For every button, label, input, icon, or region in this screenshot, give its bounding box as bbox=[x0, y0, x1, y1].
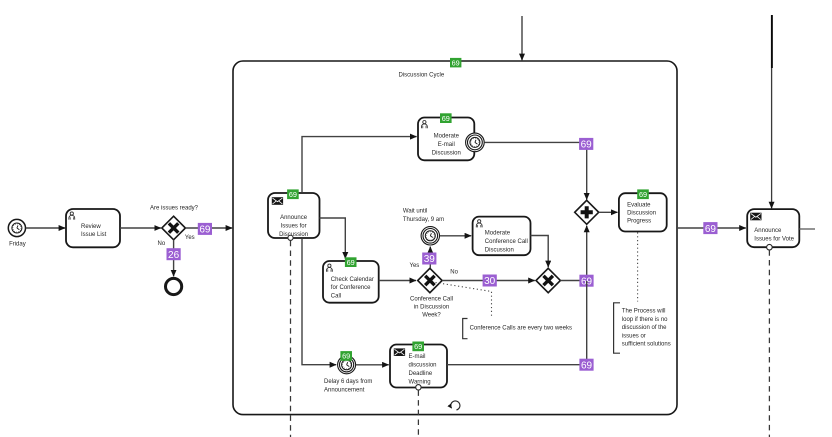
svg-text:sufficient solutions: sufficient solutions bbox=[622, 342, 671, 348]
svg-text:Announce: Announce bbox=[280, 215, 308, 221]
svg-text:Progress: Progress bbox=[627, 219, 651, 225]
svg-text:Deadline: Deadline bbox=[409, 371, 433, 377]
svg-text:for Conference: for Conference bbox=[331, 285, 371, 291]
parallel gateway bbox=[575, 200, 599, 224]
svg-text:Call: Call bbox=[331, 293, 341, 299]
badge green 69 on Check Calendar bbox=[345, 257, 357, 267]
wire out of Announce Issues for Vote to right bbox=[799, 228, 815, 230]
svg-text:69: 69 bbox=[581, 140, 593, 151]
svg-text:69: 69 bbox=[639, 190, 647, 199]
wire Announce to Moderate E-mail Discussion bbox=[302, 137, 417, 193]
message flow dashed from E-mail warning down bbox=[417, 390, 419, 437]
wire Moderate Conference Call to merge gateway bbox=[531, 236, 549, 268]
svg-text:No: No bbox=[158, 241, 166, 247]
wire X2 No to merge gateway X3 bbox=[442, 280, 535, 282]
svg-text:Discussion: Discussion bbox=[485, 248, 514, 254]
svg-text:discussion of the: discussion of the bbox=[622, 325, 667, 331]
wire Check Calendar to gateway X2 bbox=[379, 280, 416, 282]
message flow dashed from Vote down bbox=[768, 250, 770, 437]
svg-text:30: 30 bbox=[484, 276, 496, 287]
svg-text:Conference Calls are every two: Conference Calls are every two weeks bbox=[470, 326, 572, 332]
badge green 69 on Evaluate bbox=[637, 189, 649, 199]
wire Announce to Delay timer bbox=[302, 238, 336, 364]
wire subprocess exit to Announce Issues for Vote bbox=[677, 227, 746, 229]
wire Wait timer to Moderate Conference Call bbox=[440, 235, 472, 237]
wire parallel gateway to Evaluate bbox=[599, 211, 618, 213]
svg-text:Wait until: Wait until bbox=[403, 209, 427, 215]
badge green 69 on subprocess top edge bbox=[450, 58, 461, 68]
svg-text:69: 69 bbox=[705, 224, 717, 235]
annotation The Process will loop bbox=[614, 303, 671, 353]
svg-text:Friday: Friday bbox=[9, 241, 26, 247]
subprocess Discussion Cycle container bbox=[233, 61, 677, 415]
svg-text:E-mail: E-mail bbox=[438, 142, 455, 148]
svg-text:Discussion: Discussion bbox=[627, 211, 656, 217]
svg-text:in Discussion: in Discussion bbox=[414, 304, 449, 310]
svg-text:Discussion Cycle: Discussion Cycle bbox=[399, 73, 445, 79]
wire Announce to Check Calendar bbox=[320, 218, 346, 259]
association dotted Evaluate to annotation bbox=[637, 232, 639, 301]
svg-text:69: 69 bbox=[442, 114, 450, 123]
badge purple 69 bbox=[579, 359, 593, 372]
svg-text:69: 69 bbox=[347, 258, 355, 267]
svg-text:Yes: Yes bbox=[185, 235, 195, 241]
svg-text:69: 69 bbox=[289, 190, 297, 199]
message connector circle on Announce bottom bbox=[288, 235, 293, 240]
svg-text:39: 39 bbox=[424, 254, 436, 265]
svg-text:69: 69 bbox=[452, 58, 460, 67]
wire X2 Yes up to Wait timer bbox=[429, 247, 431, 268]
svg-text:Discussion: Discussion bbox=[432, 151, 461, 157]
svg-text:26: 26 bbox=[168, 250, 180, 261]
svg-text:Moderate: Moderate bbox=[485, 230, 511, 236]
svg-text:The Process will: The Process will bbox=[622, 309, 666, 315]
badge purple 69 bbox=[579, 275, 593, 288]
task Announce Issues for Discussion bbox=[268, 193, 320, 238]
svg-text:Issues for: Issues for bbox=[281, 224, 307, 230]
task Announce Issues for Vote bbox=[747, 209, 799, 247]
svg-text:Week?: Week? bbox=[422, 313, 441, 319]
svg-text:Check Calendar: Check Calendar bbox=[331, 277, 374, 283]
svg-text:Issues for Vote: Issues for Vote bbox=[754, 236, 794, 242]
svg-text:Are issues ready?: Are issues ready? bbox=[150, 206, 199, 212]
task Moderate E-mail Discussion bbox=[418, 118, 474, 161]
wire Delay timer to E-mail warning task bbox=[356, 364, 389, 366]
svg-text:Delay 6 days from: Delay 6 days from bbox=[324, 379, 372, 385]
svg-text:Issue List: Issue List bbox=[81, 232, 107, 238]
gateway X3 merge bbox=[536, 268, 560, 292]
svg-text:Moderate: Moderate bbox=[434, 133, 460, 139]
badge green 69 on Announce bbox=[287, 189, 299, 199]
wire incoming top message flow into subprocess bbox=[521, 16, 523, 60]
gateway X2 Conference Call in Discussion Week? bbox=[410, 268, 453, 318]
svg-text:Announce: Announce bbox=[754, 228, 782, 234]
svg-text:Discussion: Discussion bbox=[279, 232, 308, 238]
svg-text:Thursday, 9 am: Thursday, 9 am bbox=[403, 217, 444, 223]
task E-mail discussion Deadline Warning bbox=[390, 345, 447, 388]
svg-text:Conference Call: Conference Call bbox=[410, 296, 453, 302]
end event bbox=[166, 278, 182, 294]
badge green 69 on Moderate E-mail bbox=[440, 113, 452, 123]
intermediate timer Wait until Thursday bbox=[421, 227, 439, 245]
svg-text:69: 69 bbox=[199, 225, 211, 236]
association dotted X2 to annotation Conference Calls bbox=[436, 283, 492, 319]
svg-text:Conference Call: Conference Call bbox=[485, 239, 528, 245]
loop marker of subprocess bbox=[451, 401, 460, 410]
badge green 69 on Delay timer bbox=[340, 351, 352, 361]
svg-text:69: 69 bbox=[342, 352, 350, 361]
task Review Issue List bbox=[66, 209, 120, 247]
wire Review to gateway bbox=[120, 227, 161, 229]
badge purple 39 bbox=[422, 253, 436, 266]
wire start to Review Issue List bbox=[26, 227, 65, 229]
svg-text:No: No bbox=[450, 270, 458, 276]
svg-text:Announcement: Announcement bbox=[324, 387, 365, 393]
svg-text:Review: Review bbox=[81, 224, 101, 230]
boundary timer event on Moderate E-mail bbox=[466, 133, 485, 152]
svg-text:loop if there is no: loop if there is no bbox=[622, 317, 668, 323]
timer Delay 6 days from Announcement bbox=[324, 356, 372, 394]
wire gateway No down to end event bbox=[173, 240, 175, 277]
svg-text:E-mail: E-mail bbox=[409, 354, 426, 360]
svg-text:69: 69 bbox=[414, 342, 422, 351]
badge purple 69 bbox=[579, 138, 593, 151]
task Moderate Conference Call Discussion bbox=[473, 217, 531, 256]
wire X3 to parallel gateway bbox=[560, 226, 586, 281]
message flow dashed from Announce down bbox=[290, 241, 292, 437]
svg-text:issues or: issues or bbox=[622, 333, 646, 339]
svg-text:69: 69 bbox=[581, 360, 593, 371]
message connector circle on Vote bottom bbox=[767, 244, 773, 250]
message connector circle on E-mail warning bottom bbox=[416, 385, 421, 390]
svg-text:discussion: discussion bbox=[409, 363, 437, 369]
wire boundary timer to parallel gateway bbox=[484, 142, 586, 199]
annotation Conference Calls are every two weeks bbox=[463, 319, 572, 339]
wire incoming top flow to Announce Issues for Vote bbox=[771, 15, 773, 208]
badge purple 26 bbox=[167, 248, 181, 261]
badge purple 30 bbox=[483, 275, 497, 288]
task Evaluate Discussion Progress bbox=[619, 193, 667, 231]
task Check Calendar for Conference Call bbox=[323, 261, 379, 303]
badge green 69 on E-mail warning bbox=[412, 342, 424, 352]
svg-text:Evaluate: Evaluate bbox=[627, 203, 651, 209]
timer start event Friday bbox=[8, 219, 25, 247]
svg-text:Yes: Yes bbox=[410, 263, 420, 269]
wire E-mail warning to parallel gateway (merges) bbox=[447, 281, 587, 365]
badge purple 69 bbox=[703, 222, 717, 235]
wire gateway Yes to subprocess bbox=[185, 227, 232, 229]
badge purple 69 bbox=[198, 223, 212, 236]
gateway X1 Are issues ready? bbox=[150, 206, 199, 240]
